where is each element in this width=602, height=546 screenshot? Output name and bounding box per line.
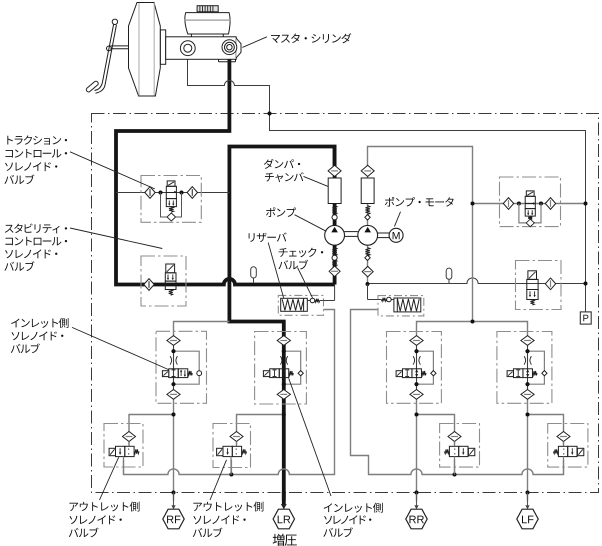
wheel connection LR (thick feed) bbox=[273, 493, 294, 529]
label: pump bbox=[266, 207, 326, 231]
label: inlet side solenoid valve (upper left) bbox=[11, 318, 169, 370]
ball at left pump outlet bbox=[332, 215, 337, 220]
check valve above left damper chamber bbox=[328, 165, 341, 176]
brake booster bbox=[129, 3, 161, 97]
booster mounting flange bbox=[160, 30, 165, 64]
junction dot (160.5,192.5) bbox=[159, 191, 163, 195]
booster pushrod bbox=[111, 46, 129, 49]
junction dot (231.4,474.5) bbox=[229, 473, 233, 477]
pump P2 (right) bbox=[358, 225, 378, 245]
wire: traction control valve line (right) bbox=[473, 203, 586, 205]
wire: thick pressure-increase path from master cylinder (primary) down-left-down-right with bridge hop bbox=[116, 52, 335, 285]
wire: LF main line lower run bbox=[527, 399, 529, 501]
junction dot (527.5,414.5) bbox=[526, 413, 530, 417]
label: outlet side solenoid valve (left) bbox=[69, 457, 140, 537]
check valve below right pump bbox=[362, 266, 373, 277]
spring above left pump bbox=[332, 206, 337, 215]
inlet solenoid valve LF with filters, orifice and bypass check bbox=[497, 332, 552, 404]
reservoir (right) with piston spring and check valve bbox=[368, 284, 424, 316]
outlet solenoid valve RF bbox=[104, 424, 143, 475]
junction dot (454.5,474.5) bbox=[453, 473, 457, 477]
wire: traction control valve line (left) bbox=[116, 192, 229, 194]
label: stability control solenoid valve bbox=[4, 224, 162, 271]
wheel connection RF bbox=[163, 493, 184, 529]
label: inlet side solenoid valve (bottom) bbox=[289, 378, 383, 537]
traction control solenoid valve (right) with filters and bypass check valve bbox=[500, 177, 561, 227]
label: outlet side solenoid valve (middle) bbox=[193, 460, 264, 537]
wire: LR outlet valve branch bbox=[237, 415, 284, 446]
wheel connection LF bbox=[517, 493, 538, 529]
wire: RF main line lower run bbox=[173, 399, 175, 501]
wire: RR outlet valve branch bbox=[417, 415, 455, 446]
orifice damper (right) bbox=[446, 268, 452, 284]
check valve below left pump bbox=[329, 266, 340, 277]
junction dot (173.5,414.5) bbox=[172, 413, 176, 417]
pump drive shaft bbox=[345, 232, 358, 237]
outlet solenoid valve LF bbox=[548, 424, 588, 475]
wire: right suction run from pump node to right MC line with hop over pump discharge line bbox=[368, 278, 586, 284]
reservoir filler cap bbox=[197, 6, 218, 12]
junction dot (416.5,492.5) bbox=[415, 491, 419, 495]
outlet solenoid valve RR bbox=[440, 424, 480, 475]
wire: RF supply branch from thick corner bbox=[174, 322, 230, 336]
junction dot (518.9,203.5) bbox=[517, 202, 521, 206]
inlet solenoid valve LR with filters, orifice and bypass check bbox=[255, 332, 307, 405]
label: traction control solenoid valve bbox=[4, 135, 154, 188]
wire: right return bus with hops, right reservoir drain route bbox=[351, 310, 564, 475]
junction dot (541,203.5) bbox=[539, 202, 543, 206]
wire: master cylinder secondary circuit to right brake circuit and P test port bbox=[188, 56, 586, 312]
inlet solenoid valve RF with filters, orifice and bypass check bbox=[156, 331, 207, 403]
hydraulic unit boundary box (dash-dot border) bbox=[92, 114, 599, 493]
check valve above right damper chamber bbox=[361, 165, 374, 176]
junction dot (472.5,321.5) bbox=[471, 320, 475, 324]
label: damper chamber bbox=[264, 159, 328, 186]
pump motor M bbox=[389, 228, 403, 242]
master cylinder secondary port bbox=[222, 40, 237, 55]
ball at left pump inlet bbox=[332, 255, 337, 260]
wire: RR/LF supply line bbox=[417, 322, 528, 336]
spring below left pump bbox=[332, 248, 337, 256]
label: pressure increase bbox=[273, 534, 297, 546]
check ball (diamond) at right pump inlet bbox=[365, 255, 370, 260]
spring below right pump bbox=[365, 248, 370, 256]
wheel connection RR bbox=[406, 493, 427, 529]
junction dot (585.5,283.5) bbox=[584, 282, 588, 286]
motor coupling shaft bbox=[378, 233, 390, 238]
wire: RR outlet drain bbox=[454, 460, 456, 475]
label: master cylinder bbox=[242, 33, 351, 47]
reservoir (left) with piston spring and check valve bbox=[278, 285, 334, 316]
damper chamber (right) bbox=[361, 178, 374, 204]
wire: LF outlet valve branch bbox=[528, 415, 564, 446]
brake pedal bbox=[85, 19, 117, 93]
junction dot (416.5,414.5) bbox=[415, 413, 419, 417]
pump P1 (left) bbox=[325, 225, 345, 245]
check ball (diamond) at right pump outlet bbox=[365, 215, 370, 220]
junction dot (283.8,414.5) bbox=[282, 413, 286, 417]
junction dot (367.5,284) bbox=[366, 282, 370, 286]
wire: RR main line lower run bbox=[416, 399, 418, 501]
junction dot (472.5,203.5) bbox=[471, 202, 475, 206]
label: check valve bbox=[278, 248, 323, 298]
wire: RF outlet valve branch bbox=[129, 415, 174, 446]
orifice damper (left) bbox=[251, 267, 257, 283]
junction dot (173.5,492.5) bbox=[172, 491, 176, 495]
stability control solenoid valve (right) with filter bbox=[516, 261, 562, 310]
junction dot (283.8,492.5) bbox=[282, 491, 286, 495]
inlet solenoid valve RR with filters, orifice and bypass check bbox=[387, 332, 442, 404]
wire: right pump discharge loop up-right-down to RR/LF supply bbox=[368, 147, 473, 322]
master cylinder body bbox=[166, 37, 241, 62]
junction dot (269.5,113.5) bbox=[268, 112, 272, 116]
label: reservoir bbox=[249, 233, 287, 298]
spring above right pump bbox=[365, 206, 370, 215]
pressure test port P bbox=[580, 312, 591, 324]
wire: LR outlet drain bbox=[230, 460, 232, 475]
junction dot (181.5,192.5) bbox=[180, 191, 184, 195]
master cylinder fluid reservoir tank bbox=[184, 13, 230, 38]
spring between ball and check valve (left column) bbox=[332, 260, 337, 266]
wire: thick left pump column (suction/discharge) bbox=[333, 147, 337, 285]
traction control solenoid valve (left) with inlet/outlet filters and bypass check valve bbox=[141, 176, 201, 223]
wire: left return bus with hops, reservoir drain riser bbox=[124, 310, 335, 475]
junction dot (527.5,492.5) bbox=[526, 491, 530, 495]
junction dot (585.5,203.5) bbox=[584, 202, 588, 206]
label: pump motor bbox=[385, 197, 454, 227]
outlet solenoid valve LR bbox=[213, 424, 251, 475]
damper chamber (left) bbox=[328, 178, 341, 204]
master cylinder primary port bbox=[180, 41, 195, 56]
wire: thick path pump-outlet manifold to LR inlet valve and LR wheel bbox=[229, 147, 334, 501]
stability control solenoid valve (left) with filter bbox=[141, 256, 186, 306]
